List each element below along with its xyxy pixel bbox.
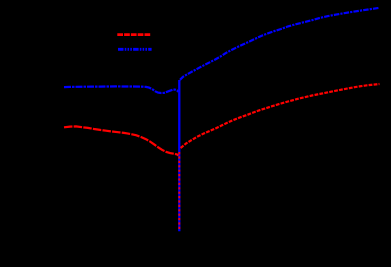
legend blue dash-dot sample	[118, 48, 152, 51]
vertical transition line blue	[178, 80, 180, 231]
red curve left branch	[64, 126, 178, 155]
legend red dashed sample	[117, 33, 150, 36]
red curve right branch	[181, 84, 380, 148]
blue curve right branch	[180, 8, 380, 80]
blue curve left branch	[64, 86, 178, 93]
red vertical plunge dashes over blue line	[178, 152, 180, 231]
